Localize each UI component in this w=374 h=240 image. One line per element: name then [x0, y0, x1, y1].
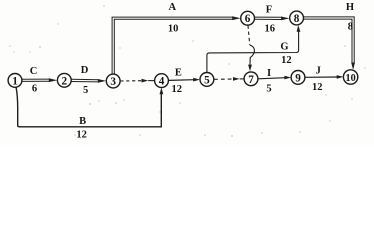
svg-text:16: 16 — [264, 24, 275, 35]
activity J arrow 9-10 (single line) — [305, 75, 343, 79]
node 10 — [343, 70, 357, 84]
activity A arrow 3-6 (critical, double line, up and right) — [112, 16, 241, 74]
svg-text:12: 12 — [281, 55, 292, 66]
dummy arrow 3-4 (dashed) — [120, 79, 154, 83]
svg-text:6: 6 — [245, 13, 251, 25]
svg-text:10: 10 — [346, 73, 356, 84]
svg-text:2: 2 — [62, 75, 68, 87]
node 5 — [200, 73, 214, 87]
svg-text:10: 10 — [168, 23, 179, 34]
dummy arrow 5-7 (dashed) — [214, 77, 244, 81]
svg-text:8: 8 — [294, 13, 300, 25]
activity E arrow 4-5 (single line) — [169, 78, 200, 82]
svg-text:D: D — [81, 65, 89, 76]
svg-text:H: H — [346, 2, 354, 13]
node 7 — [244, 72, 258, 86]
node 1 — [8, 74, 22, 88]
svg-text:4: 4 — [159, 76, 165, 88]
node 4 — [155, 74, 169, 88]
svg-text:7: 7 — [248, 74, 254, 86]
svg-text:5: 5 — [83, 85, 88, 96]
svg-text:12: 12 — [76, 130, 87, 141]
activity I arrow 7-9 (single line) — [258, 76, 291, 80]
node 6 — [241, 11, 255, 25]
svg-text:A: A — [169, 2, 177, 13]
svg-text:1: 1 — [12, 75, 18, 87]
activity C arrow 1-2 (critical, double line) — [22, 78, 57, 82]
dummy arrow 6-7 (dashed, with hop over G) — [248, 25, 254, 71]
activity G arrow 5-8 (single line, up right up) — [207, 25, 301, 73]
activity H arrow 8-10 (critical, double line, right and down) — [303, 17, 355, 70]
activity F arrow 6-8 (critical, double line) — [254, 17, 289, 21]
svg-text:8: 8 — [348, 21, 353, 32]
svg-text:J: J — [316, 66, 321, 77]
svg-text:5: 5 — [204, 74, 210, 86]
svg-text:F: F — [266, 4, 272, 15]
svg-text:12: 12 — [312, 82, 323, 93]
svg-text:B: B — [79, 116, 86, 127]
node 2 — [57, 73, 71, 87]
node 9 — [291, 71, 305, 85]
svg-text:G: G — [280, 42, 288, 53]
svg-text:6: 6 — [32, 83, 37, 94]
svg-text:5: 5 — [266, 84, 271, 95]
node 3 — [106, 74, 120, 88]
svg-text:3: 3 — [110, 76, 116, 88]
activity B arrow 1-4 (single line, down along bottom then up) — [16, 87, 163, 127]
node 8 — [290, 11, 304, 25]
svg-text:E: E — [175, 68, 182, 79]
svg-text:9: 9 — [295, 72, 301, 84]
svg-text:I: I — [267, 68, 271, 79]
svg-text:C: C — [30, 66, 38, 77]
svg-text:12: 12 — [171, 84, 182, 95]
activity D arrow 2-3 (critical, double line) — [71, 79, 106, 83]
